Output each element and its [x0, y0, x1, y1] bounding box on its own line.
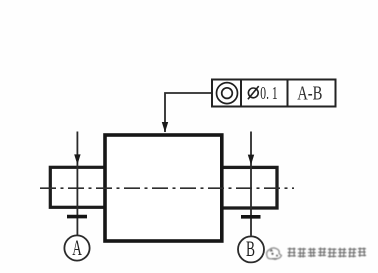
- feature control frame box: [212, 80, 336, 107]
- datum B target bar: [241, 215, 261, 219]
- concentricity symbol outer circle: [217, 83, 238, 104]
- leader line of feature control frame: [165, 93, 212, 132]
- svg-text:A-B: A-B: [297, 84, 322, 105]
- frame divider 2: [287, 80, 289, 107]
- centerline (dash-dot axis): [40, 187, 294, 189]
- watermark logo: [267, 248, 282, 259]
- concentricity symbol inner circle: [222, 88, 233, 99]
- leader arrowhead: [162, 122, 168, 132]
- datum B indicator line: [250, 132, 252, 236]
- datum B balloon circle: [238, 236, 264, 262]
- datum A balloon circle: [64, 235, 89, 260]
- frame divider 1: [240, 80, 242, 107]
- svg-text:A: A: [72, 235, 82, 260]
- center cylinder (main block): [105, 135, 222, 241]
- datum B arrowhead: [248, 155, 254, 165]
- svg-text:0. 1: 0. 1: [260, 83, 277, 103]
- svg-text:B: B: [246, 236, 255, 261]
- datum A arrowhead: [74, 154, 80, 164]
- right journal (small shaft B): [220, 167, 277, 208]
- left journal (small shaft A): [50, 167, 108, 207]
- watermark text (blurred hanzi-like strokes): [288, 247, 366, 257]
- diameter symbol: [248, 88, 258, 98]
- datum A indicator line: [76, 132, 78, 236]
- datum A target bar: [67, 215, 87, 219]
